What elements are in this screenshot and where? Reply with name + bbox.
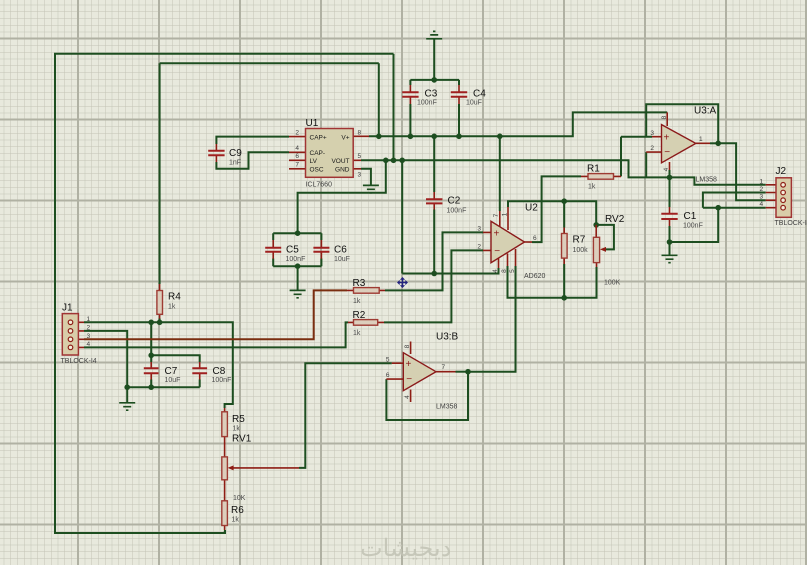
svg-text:V+: V+ <box>341 134 349 141</box>
wire R2 to U2 pin2 <box>384 250 483 322</box>
svg-text:CAP+: CAP+ <box>310 134 327 141</box>
svg-text:U2: U2 <box>525 203 538 214</box>
svg-text:100nF: 100nF <box>212 377 232 384</box>
junction VOUT rail / V- drop <box>399 158 405 164</box>
capacitor C5 <box>265 240 305 263</box>
svg-text:3: 3 <box>87 333 91 340</box>
resistor R4 <box>157 284 181 319</box>
resistor R3 <box>347 278 385 305</box>
capacitor C2 <box>426 192 466 215</box>
wire top ground stem <box>433 39 435 80</box>
svg-text:5: 5 <box>509 269 516 273</box>
wire J2 pin4 row <box>703 207 766 209</box>
svg-text:C4: C4 <box>473 89 486 100</box>
svg-text:100nF: 100nF <box>417 100 437 107</box>
chip U1 ICL7660 <box>289 118 369 189</box>
svg-text:100nF: 100nF <box>683 223 703 230</box>
svg-text:100nF: 100nF <box>286 256 306 263</box>
junction ground / C7 C8 bottom rail <box>124 384 130 390</box>
ground (top, inverted) <box>426 31 442 38</box>
wire C9 top to U1 pin2 <box>216 137 289 144</box>
wire C1 node to J2 pins 2 4 <box>670 208 719 242</box>
junction C7 C8 top rail <box>148 353 154 359</box>
junction V+ rail / C4 <box>456 134 462 140</box>
svg-text:+: + <box>406 359 412 370</box>
svg-text:−: − <box>406 374 412 385</box>
svg-text:R6: R6 <box>231 505 244 516</box>
wire U3B output node <box>456 371 469 373</box>
wire R1 right to U3A pin3 <box>620 137 622 177</box>
wire C9 bottom to U1 pin4 <box>216 152 289 169</box>
op-amp U3:A LM358 <box>646 106 717 184</box>
svg-text:10K: 10K <box>233 495 246 502</box>
svg-text:ICL7660: ICL7660 <box>306 182 333 189</box>
svg-text:1k: 1k <box>588 184 596 191</box>
resistor R6 <box>222 495 244 530</box>
wire C2 top to V+ rail <box>433 136 435 192</box>
svg-text:3: 3 <box>358 172 362 179</box>
junction J1 pin1 / R4 bottom <box>157 320 163 326</box>
wire VOUT drop from top loop <box>393 54 395 161</box>
wire C3 bottom to V+ rail <box>409 104 411 136</box>
wire U3A output to J2 pin3 <box>718 143 766 200</box>
svg-text:C3: C3 <box>425 89 438 100</box>
node origin marker <box>397 277 408 288</box>
wire R6 bottom to loop <box>224 530 226 533</box>
wire J1 pin4 to R2 (green) <box>84 322 348 347</box>
svg-text:VOUT: VOUT <box>331 158 349 165</box>
svg-text:C2: C2 <box>448 196 461 207</box>
svg-text:R1: R1 <box>587 164 600 175</box>
svg-text:100nF: 100nF <box>447 208 467 215</box>
svg-text:RV1: RV1 <box>232 434 252 445</box>
svg-text:R2: R2 <box>353 310 366 321</box>
potentiometer RV1 <box>222 434 299 503</box>
svg-text:GND: GND <box>335 167 350 174</box>
svg-text:3: 3 <box>760 194 764 201</box>
wire R7 bottom lead <box>563 264 565 298</box>
svg-text:6: 6 <box>386 372 390 379</box>
svg-text:C5: C5 <box>286 245 299 256</box>
svg-text:−: − <box>494 246 500 257</box>
potentiometer RV2 <box>593 214 624 287</box>
wire U3B pin5 to RV1 wiper <box>299 363 392 468</box>
svg-text:1nF: 1nF <box>229 160 241 167</box>
junction V+ rail / C2 <box>431 134 437 140</box>
svg-text:2: 2 <box>760 186 764 193</box>
capacitor C9 <box>208 144 242 167</box>
wire R7 top lead <box>563 201 565 227</box>
junction C1 bottom / ground <box>667 239 673 245</box>
junction C5 C6 bottom <box>295 263 301 269</box>
svg-text:1k: 1k <box>353 298 361 305</box>
svg-text:8: 8 <box>661 115 668 119</box>
wire left loop (VOUT to R6 bottom) <box>55 54 394 533</box>
wire VOUT to J2 pin1 <box>670 177 766 184</box>
svg-text:U3:A: U3:A <box>694 106 717 117</box>
svg-text:C6: C6 <box>334 245 347 256</box>
svg-text:3: 3 <box>650 130 654 137</box>
svg-text:6: 6 <box>295 153 299 160</box>
svg-text:100k: 100k <box>573 247 589 254</box>
svg-text:7: 7 <box>493 213 500 217</box>
wire C1 top <box>669 177 671 207</box>
ground (below U1) <box>363 185 379 192</box>
wire U2 pin5 REF to U3B output <box>468 266 516 372</box>
junction R7 top <box>561 198 567 204</box>
wire V- rail to U2 pin4 <box>402 268 498 274</box>
wire U2 pin1 Rg to R7 top <box>508 201 596 225</box>
resistor R1 <box>581 164 621 191</box>
junction VOUT rail / C5 C6 branch <box>383 158 389 164</box>
wire VOUT to C5 C6 top <box>298 160 386 233</box>
svg-text:1k: 1k <box>168 304 176 311</box>
svg-text:LM358: LM358 <box>436 404 458 411</box>
wire C1 ground stem <box>669 242 671 255</box>
svg-text:J2: J2 <box>776 166 787 177</box>
svg-text:2: 2 <box>477 244 481 251</box>
svg-text:C8: C8 <box>213 366 226 377</box>
svg-text:LV: LV <box>310 158 318 165</box>
svg-text:4: 4 <box>404 395 411 399</box>
svg-text:3: 3 <box>477 226 481 233</box>
junction V+ rail / R4 branch <box>376 134 382 140</box>
junction C7 bottom <box>148 384 154 390</box>
wire U3A pin3 row <box>621 136 652 138</box>
svg-text:4: 4 <box>87 341 91 348</box>
wire U3A pin2 drop <box>645 152 647 177</box>
wire C4 bottom to V+ rail <box>458 104 460 136</box>
ground (below J1 pin2) <box>119 403 135 410</box>
svg-text:ديجيشات: ديجيشات <box>360 535 451 562</box>
svg-text:4: 4 <box>663 167 670 171</box>
op-amp U3:B LM358 <box>386 331 459 410</box>
wire J1 pin1 net <box>84 322 233 408</box>
wire VOUT rail <box>361 160 670 177</box>
wire R3 to U2 pin3 <box>385 232 483 290</box>
wire C3 C4 top rail <box>410 80 459 85</box>
svg-text:2: 2 <box>87 324 91 331</box>
svg-text:R4: R4 <box>168 291 181 302</box>
svg-text:1k: 1k <box>353 330 361 337</box>
wire VOUT drop to V- rail <box>401 160 403 273</box>
wire C1 bottom <box>669 226 671 242</box>
svg-text:4: 4 <box>760 201 764 208</box>
svg-text:7: 7 <box>442 364 446 371</box>
wire U1 pin3 GND to ground <box>361 169 371 185</box>
svg-text:LM358: LM358 <box>696 177 718 184</box>
svg-text:8: 8 <box>358 130 362 137</box>
wire J2 pin2 row <box>703 193 766 208</box>
instrumentation amp U2 AD620 <box>477 203 545 280</box>
svg-text:7: 7 <box>295 162 299 169</box>
ground (below C5 C6) <box>290 290 306 297</box>
resistor R2 <box>348 310 384 337</box>
svg-text:CAP-: CAP- <box>310 150 326 157</box>
svg-text:10uF: 10uF <box>165 377 181 384</box>
junction U3A output <box>715 141 721 147</box>
svg-text:10uF: 10uF <box>334 256 350 263</box>
wire C5 C6 top rail <box>273 233 321 240</box>
watermark <box>360 535 451 562</box>
resistor R5 <box>222 408 245 442</box>
capacitor C7 <box>144 362 181 384</box>
junction top ground / C3 C4 rail <box>431 77 437 83</box>
junction V+ rail / C3 <box>408 134 414 140</box>
svg-text:2: 2 <box>295 130 299 137</box>
svg-text:AD620: AD620 <box>524 273 546 280</box>
svg-text:U1: U1 <box>306 118 319 129</box>
svg-text:1: 1 <box>501 212 508 216</box>
svg-text:4: 4 <box>295 145 299 152</box>
svg-text:6: 6 <box>533 235 537 242</box>
svg-text:−: − <box>664 147 670 158</box>
svg-text:RV2: RV2 <box>605 214 625 225</box>
wire C7 top drop <box>150 322 152 362</box>
wire U2 pin7 to V+ rail <box>499 136 501 211</box>
wire C7 C8 top rail <box>151 355 200 362</box>
wire C5 C6 bottom rail <box>273 259 321 267</box>
svg-text:TBLOCK-I4: TBLOCK-I4 <box>775 220 807 227</box>
capacitor C1 <box>661 207 703 230</box>
connector J2 TBLOCK-I4 <box>760 166 807 227</box>
svg-text:OSC: OSC <box>310 167 324 174</box>
junction VOUT rail / left loop <box>391 158 397 164</box>
wire U2 pin8 Rg to R7 bottom and RV2 bottom <box>508 266 597 298</box>
svg-text:+: + <box>494 228 500 239</box>
svg-text:5: 5 <box>386 356 390 363</box>
svg-text:8: 8 <box>501 269 508 273</box>
svg-text:1k: 1k <box>233 426 241 433</box>
svg-text:8: 8 <box>404 344 411 348</box>
junction U3B output <box>465 369 471 375</box>
wire V+ top branch to R4 <box>160 63 379 284</box>
junction V- rail / C2 bottom <box>431 271 437 277</box>
junction RV2 top <box>593 222 599 228</box>
svg-text:2: 2 <box>650 145 654 152</box>
capacitor C6 <box>313 240 350 263</box>
capacitor C8 <box>192 362 231 384</box>
svg-text:C1: C1 <box>684 211 697 222</box>
wire U3A pin4 drop <box>669 170 671 177</box>
svg-text:100K: 100K <box>604 280 621 287</box>
wire C5 C6 ground stem <box>297 266 299 290</box>
svg-text:C7: C7 <box>165 366 178 377</box>
ground (below C1) <box>662 255 678 262</box>
svg-text:1: 1 <box>699 136 703 143</box>
junction U3A pin4 / C1 / VOUT <box>667 175 673 181</box>
wire C7 C8 bottom rail <box>127 380 200 388</box>
wire C2 bottom to V- rail <box>433 210 435 274</box>
svg-text:R7: R7 <box>573 235 586 246</box>
junction J1 pin1 / C7 branch <box>148 320 154 326</box>
junction C5 C6 top <box>295 230 301 236</box>
wire J1 pin3 net (brown) <box>84 290 347 339</box>
svg-text:1: 1 <box>760 178 764 185</box>
junction V+ rail / U2 pin7 <box>497 134 503 140</box>
svg-text:R3: R3 <box>353 278 366 289</box>
svg-text:+: + <box>664 133 670 144</box>
capacitor C3 <box>402 85 438 107</box>
svg-text:1k: 1k <box>232 517 240 524</box>
svg-text:U3:B: U3:B <box>436 331 459 342</box>
wire U3A output node <box>710 142 718 144</box>
svg-text:5: 5 <box>358 153 362 160</box>
capacitor C4 <box>451 85 486 107</box>
junction R7 bottom <box>561 295 567 301</box>
wire V+ rail <box>369 112 667 136</box>
svg-text:R5: R5 <box>232 414 245 425</box>
resistor R7 <box>562 228 589 265</box>
svg-text:TBLOCK-I4: TBLOCK-I4 <box>61 358 97 365</box>
wire U3A feedback <box>646 104 718 143</box>
svg-text:10uF: 10uF <box>466 100 482 107</box>
connector J1 TBLOCK-I4 <box>61 303 97 366</box>
wire R4 bottom to J1 pin1 net <box>159 319 161 323</box>
svg-text:4: 4 <box>492 269 499 273</box>
svg-text:1: 1 <box>87 316 91 323</box>
wire J1 pin2 to ground <box>84 331 127 402</box>
wire RV2 top to wiper <box>596 225 614 250</box>
junction J2 pins 2 4 <box>715 205 721 211</box>
svg-text:J1: J1 <box>62 303 73 314</box>
wire R1 left to U2 output <box>532 176 581 242</box>
wire U3B feedback loop <box>386 372 468 420</box>
svg-text:C9: C9 <box>229 148 242 159</box>
